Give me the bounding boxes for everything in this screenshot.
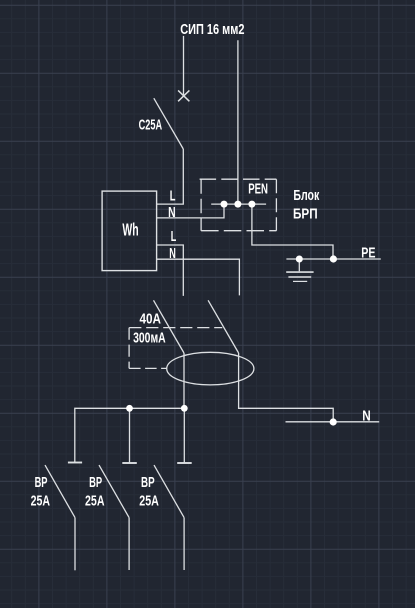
PEN block dashed box bottom edge — [201, 230, 276, 232]
wire meter L2 out — [157, 245, 184, 296]
wire drop breaker 2 — [129, 408, 131, 463]
svg-text:Блок: Блок — [293, 187, 319, 204]
svg-text:C25A: C25A — [139, 117, 163, 134]
junction dot PE — [330, 255, 337, 262]
RCD toroid ellipse — [167, 352, 254, 385]
svg-text:N: N — [168, 204, 176, 221]
wire phase distribution bus — [75, 408, 185, 462]
terminal tick breaker 3 — [177, 462, 192, 464]
RCD dashed linkage horizontal — [129, 327, 222, 329]
svg-text:PEN: PEN — [248, 180, 268, 197]
wire N bus — [286, 421, 380, 423]
junction dot PEN 1 — [221, 201, 228, 208]
wire meter N1 to PEN block — [157, 204, 224, 218]
breaker ВР2 blade — [99, 465, 129, 517]
svg-text:СИП 16 мм2: СИП 16 мм2 — [180, 22, 244, 38]
svg-text:N: N — [362, 407, 371, 424]
RCD right pole blade — [208, 300, 239, 353]
terminal tick breaker 1 — [68, 462, 82, 464]
breaker C25A blade — [154, 98, 184, 149]
junction dot bus 3 — [181, 405, 188, 412]
wire incoming L (СИП phase) — [183, 36, 185, 95]
breaker ВР1 blade — [45, 465, 75, 517]
svg-text:300мА: 300мА — [133, 329, 166, 346]
RCD left pole blade — [154, 300, 185, 353]
svg-text:ВР: ВР — [141, 474, 155, 491]
svg-text:L: L — [170, 187, 176, 204]
wire incoming N (СИП neutral) — [237, 40, 239, 204]
terminal tick breaker 2 — [122, 462, 137, 464]
junction dot PEN 2 — [234, 201, 241, 208]
PEN block dashed box left edge — [200, 179, 202, 231]
svg-text:40A: 40A — [140, 310, 162, 327]
svg-text:PE: PE — [361, 244, 375, 261]
svg-text:БРП: БРП — [293, 206, 318, 223]
svg-text:ВР: ВР — [35, 474, 48, 491]
RCD dashed link to toroid — [129, 367, 167, 369]
svg-text:L: L — [171, 228, 177, 245]
wire PEN to PE feed — [252, 204, 333, 259]
wire PE bus — [286, 258, 380, 260]
junction dot ground — [296, 256, 303, 263]
PEN block dashed box top edge — [200, 178, 277, 180]
breaker ВР3 blade — [154, 465, 184, 517]
wire out breaker 2 — [128, 518, 130, 570]
junction dot N — [330, 418, 337, 425]
svg-text:25А: 25А — [85, 492, 105, 509]
break mark X on incoming L — [178, 90, 189, 101]
PEN block dashed box right edge — [275, 179, 277, 231]
wire RCD right out to N — [239, 353, 334, 422]
wire PEN bus bar — [211, 203, 266, 205]
junction dot bus 2 — [126, 405, 133, 412]
wire meter N2 out — [157, 259, 240, 295]
RCD dashed linkage vertical — [128, 328, 130, 369]
svg-text:25А: 25А — [139, 492, 159, 509]
wire drop breaker 3 — [183, 408, 185, 463]
junction dot PEN 3 — [248, 201, 255, 208]
wire C25A to meter L1 — [157, 149, 184, 204]
svg-text:N: N — [169, 245, 176, 262]
wire out breaker 1 — [74, 518, 76, 571]
svg-text:25А: 25А — [31, 492, 51, 509]
wire RCD left out to bus — [183, 353, 185, 408]
wire out breaker 3 — [183, 518, 185, 570]
svg-text:Wh: Wh — [122, 220, 138, 240]
ground symbol — [298, 259, 300, 271]
meter Wh box — [102, 191, 157, 271]
svg-text:ВР: ВР — [89, 474, 102, 491]
